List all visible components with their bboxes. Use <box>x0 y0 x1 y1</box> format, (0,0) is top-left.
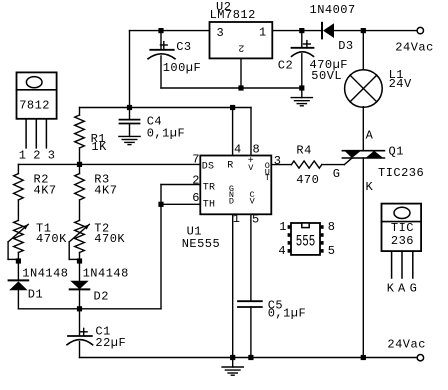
trimmer T2 470K <box>69 220 89 261</box>
node junction C4 <box>127 105 132 110</box>
label 100uF <box>163 61 202 75</box>
pin 8 label <box>253 143 261 157</box>
svg-text:5: 5 <box>252 212 260 226</box>
label LM7812 <box>210 8 256 22</box>
wire 12V output rail to regulator pin 3 <box>130 30 210 32</box>
label R4 <box>296 143 311 157</box>
wire diode rail <box>18 308 161 310</box>
lamp L1 24V <box>345 70 383 108</box>
svg-text:470K: 470K <box>36 232 67 246</box>
wire 12V rail to 555 <box>80 107 252 109</box>
svg-text:470K: 470K <box>94 232 125 246</box>
svg-text:NE555: NE555 <box>182 237 221 251</box>
capacitor C4 0.1uF <box>120 108 140 137</box>
wire U2 pin 2 down to ground rail <box>240 58 242 88</box>
svg-text:V: V <box>248 163 254 173</box>
svg-text:TR: TR <box>203 182 215 193</box>
svg-text:24Vac: 24Vac <box>387 337 426 351</box>
node junction triac K rail <box>361 355 366 360</box>
node junction R1/R3/DS <box>77 162 82 167</box>
label D2 <box>94 289 109 303</box>
label G <box>333 167 341 181</box>
capacitor C2 470uF 50VL <box>292 31 314 88</box>
wire 555 pin 1 to ground rail <box>232 214 234 357</box>
label 470K T1 <box>36 232 67 246</box>
label C1 <box>95 324 110 338</box>
resistor R4 470 <box>291 161 321 168</box>
label 24Vac top <box>395 40 434 54</box>
svg-text:1: 1 <box>279 220 287 234</box>
svg-text:G: G <box>410 281 418 295</box>
svg-text:3: 3 <box>48 149 56 163</box>
svg-text:D1: D1 <box>28 287 43 301</box>
ground at bottom rail <box>222 358 243 376</box>
label 1N4148 D1 <box>22 267 68 281</box>
svg-text:1N4007: 1N4007 <box>310 3 356 17</box>
package drawing 555 DIP-8 <box>278 220 335 258</box>
label 24V <box>389 77 412 91</box>
svg-text:K: K <box>387 281 395 295</box>
svg-text:4K7: 4K7 <box>94 183 117 197</box>
wire left rail to 555 DS <box>18 163 200 165</box>
label A <box>366 128 374 142</box>
svg-text:1K: 1K <box>91 140 107 154</box>
pin name CV <box>250 190 256 207</box>
wire 555 OUT to R4 <box>271 164 291 166</box>
svg-text:5: 5 <box>328 244 336 258</box>
svg-text:D3: D3 <box>338 39 353 53</box>
svg-text:G: G <box>333 167 341 181</box>
svg-text:C3: C3 <box>176 40 191 54</box>
wire 12V vertical <box>129 31 131 108</box>
diode D2 1N4148 <box>70 261 90 309</box>
pin name GND <box>229 184 234 207</box>
svg-text:1: 1 <box>233 212 241 226</box>
svg-text:4: 4 <box>278 244 286 258</box>
pin 2 label <box>192 174 200 188</box>
svg-text:R4: R4 <box>296 143 311 157</box>
label T1 <box>36 221 51 235</box>
wire D3 anode to 24Vac terminal <box>334 30 417 32</box>
node junction C2 / D3 <box>299 28 304 33</box>
svg-text:DS: DS <box>202 162 214 173</box>
svg-text:24Vac: 24Vac <box>395 40 434 54</box>
svg-text:24V: 24V <box>389 77 412 91</box>
label 470K T2 <box>94 232 125 246</box>
wire R4 to gate <box>322 158 352 165</box>
svg-text:7: 7 <box>192 152 200 166</box>
node junction C5 bottom <box>248 355 253 360</box>
label R1 <box>91 132 106 146</box>
pin name TH <box>203 200 215 211</box>
wire lamp top <box>362 31 364 71</box>
svg-text:1N4148: 1N4148 <box>83 267 129 281</box>
pin name OUT <box>265 161 270 183</box>
pin 4 label <box>234 143 242 157</box>
label R2 <box>34 173 49 187</box>
ground at C4 <box>119 136 140 144</box>
node junction lamp top <box>361 28 366 33</box>
resistor R3 4K7 <box>75 164 85 220</box>
svg-text:100µF: 100µF <box>163 61 202 75</box>
label D3 <box>338 39 353 53</box>
capacitor C1 22uF <box>67 309 93 358</box>
svg-text:TIC236: TIC236 <box>378 166 424 180</box>
svg-text:R: R <box>227 161 233 172</box>
label TIC236 <box>378 166 424 180</box>
resistor R1 1K <box>75 108 85 165</box>
wire TR/TH down <box>160 204 162 308</box>
node junction pin 4 <box>230 105 235 110</box>
node junction pin2/ground rail <box>238 85 243 90</box>
label 470 <box>296 173 319 187</box>
node junction TR/TH <box>158 202 163 207</box>
svg-text:50VL: 50VL <box>311 69 342 83</box>
label L1 <box>389 68 404 82</box>
label 0,1uF C4 <box>147 126 186 140</box>
capacitor C5 0.1uF <box>238 214 262 357</box>
wire 555 TR <box>161 185 200 205</box>
svg-text:D2: D2 <box>94 289 109 303</box>
svg-text:470: 470 <box>296 173 319 187</box>
node junction C1 top <box>77 306 82 311</box>
label 24Vac bottom <box>387 337 426 351</box>
svg-text:0,1µF: 0,1µF <box>147 126 186 140</box>
svg-text:3: 3 <box>217 26 225 40</box>
label Q1 <box>389 144 404 158</box>
svg-text:22µF: 22µF <box>95 336 126 350</box>
wire lamp to triac A <box>362 107 364 151</box>
diode D1 1N4148 <box>9 261 29 309</box>
label 1N4148 D2 <box>83 267 129 281</box>
wire triac K down to bottom rail <box>362 158 364 358</box>
node junction T1 wiper <box>16 258 21 263</box>
pin 1 label <box>233 212 241 226</box>
svg-text:C2: C2 <box>278 58 293 72</box>
svg-text:1N4148: 1N4148 <box>22 267 68 281</box>
wire ground rail C3-C2 <box>161 87 302 89</box>
label 0,1uF C5 <box>268 307 307 321</box>
label K <box>366 180 374 194</box>
label 50VL <box>311 69 342 83</box>
node junction gnd rail <box>230 355 235 360</box>
label NE555 <box>182 237 221 251</box>
svg-text:2: 2 <box>238 41 244 52</box>
svg-text:V: V <box>250 197 256 207</box>
svg-text:555: 555 <box>296 233 316 251</box>
svg-text:0,1µF: 0,1µF <box>268 307 307 321</box>
wire 555 TH <box>161 203 200 205</box>
label C2 <box>278 58 293 72</box>
resistor R2 4K7 <box>14 164 24 220</box>
pin 6 label <box>192 191 200 205</box>
pin name TR <box>203 182 215 193</box>
node VIN junction C3 <box>158 28 163 33</box>
svg-text:8: 8 <box>253 143 261 157</box>
pin 7 label <box>192 152 200 166</box>
pin name DS <box>202 162 214 173</box>
triac Q1 TIC236 <box>342 151 384 158</box>
wire 555 pin 8 <box>250 108 252 156</box>
svg-text:4K7: 4K7 <box>34 183 57 197</box>
label D1 <box>28 287 43 301</box>
svg-text:A: A <box>366 128 374 142</box>
pin 3 label <box>274 154 282 168</box>
label 4K7 R3 <box>94 183 117 197</box>
diode D3 1N4007 <box>322 23 334 39</box>
svg-text:TH: TH <box>203 200 215 211</box>
label C4 <box>147 114 162 128</box>
svg-text:4: 4 <box>234 143 242 157</box>
wire bottom rail <box>80 357 417 359</box>
wire regulator pin 1 to D3 cathode <box>272 30 322 32</box>
pin name R <box>227 161 233 172</box>
label 22uF <box>95 336 126 350</box>
svg-text:LM7812: LM7812 <box>210 8 256 22</box>
svg-text:A: A <box>398 281 406 295</box>
svg-text:K: K <box>366 180 374 194</box>
label U2 <box>216 0 231 14</box>
svg-text:8: 8 <box>328 220 336 234</box>
label 1N4007 <box>310 3 356 17</box>
svg-text:1: 1 <box>259 25 267 39</box>
label U1 <box>187 224 202 238</box>
svg-text:T: T <box>265 173 270 183</box>
svg-text:1: 1 <box>19 149 27 163</box>
svg-text:3: 3 <box>274 154 282 168</box>
package drawing 7812 <box>17 72 57 162</box>
svg-text:236: 236 <box>391 234 414 248</box>
pin 5 label <box>252 212 260 226</box>
terminal 24Vac bottom <box>417 355 423 361</box>
label 470uF <box>310 58 349 72</box>
svg-text:7812: 7812 <box>19 99 50 113</box>
svg-text:2: 2 <box>192 174 200 188</box>
wire 555 pin 4 <box>232 108 234 156</box>
trimmer T1 470K <box>8 220 28 261</box>
label T2 <box>94 221 109 235</box>
svg-text:Q1: Q1 <box>389 144 404 158</box>
pin name +V <box>248 156 255 173</box>
package drawing TIC236 <box>382 204 422 296</box>
label 4K7 R2 <box>34 183 57 197</box>
regulator U2 LM7812 <box>210 22 273 58</box>
svg-text:6: 6 <box>192 191 200 205</box>
label R3 <box>94 173 109 187</box>
terminal 24Vac top <box>417 27 423 33</box>
op-amp U1 NE555 box <box>200 156 271 215</box>
node junction C2 bottom <box>299 85 304 90</box>
node junction T2 wiper <box>77 258 82 263</box>
svg-text:2: 2 <box>33 149 41 163</box>
label 1K <box>91 140 107 154</box>
ground at C2 <box>291 88 312 106</box>
svg-text:D: D <box>229 197 234 207</box>
label C5 <box>268 298 283 312</box>
label C3 <box>176 40 191 54</box>
capacitor C3 100uF <box>148 31 175 88</box>
